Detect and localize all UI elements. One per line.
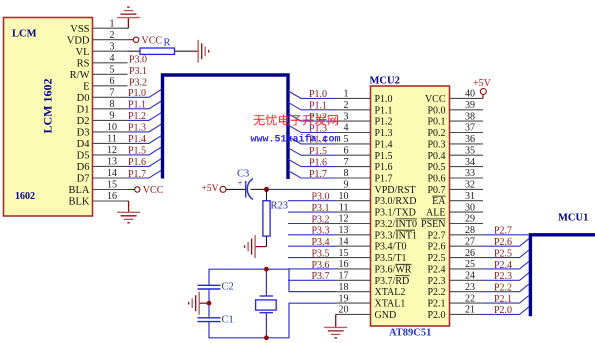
overlines on EA PSEN (421, 196, 446, 219)
svg-text:P2.4: P2.4 (494, 260, 512, 271)
svg-text:P1.5: P1.5 (128, 146, 146, 157)
svg-text:P0.2: P0.2 (427, 128, 445, 139)
svg-text:14: 14 (339, 236, 349, 247)
svg-text:2: 2 (110, 30, 115, 41)
svg-text:VCC: VCC (143, 185, 164, 196)
svg-text:P1.2: P1.2 (375, 117, 393, 128)
svg-text:4: 4 (344, 123, 349, 134)
svg-text:D6: D6 (77, 162, 90, 173)
power VCC at LCM pin15 (128, 189, 135, 191)
svg-text:P2.0: P2.0 (494, 305, 512, 316)
svg-text:XTAL2: XTAL2 (375, 287, 406, 298)
svg-text:37: 37 (465, 123, 475, 134)
wires D0-D7 to bus, net labels P1.0-P1.7 (128, 89, 163, 178)
svg-text:6: 6 (344, 145, 349, 156)
crystal Y1 (260, 295, 274, 297)
svg-text:EA: EA (432, 196, 446, 207)
MCU2 right pin numbers (465, 89, 475, 316)
svg-text:LCM: LCM (12, 29, 37, 40)
svg-text:21: 21 (465, 305, 475, 316)
svg-text:P3.1: P3.1 (312, 203, 330, 214)
MCU2 left pin stubs (336, 98, 371, 314)
svg-text:11: 11 (339, 202, 349, 213)
svg-text:14: 14 (107, 168, 117, 179)
svg-text:P2.1: P2.1 (427, 299, 445, 310)
svg-text:33: 33 (465, 168, 475, 179)
svg-text:31: 31 (465, 191, 475, 202)
wire R23 to ground (266, 236, 268, 247)
svg-text:P3.5/T1: P3.5/T1 (375, 253, 407, 264)
ground (GND at MCU pin20) (324, 327, 347, 338)
svg-text:P1.0: P1.0 (375, 94, 393, 105)
MCU2 AT89C51 block (371, 86, 450, 326)
capacitor C1 (198, 317, 221, 319)
svg-text:R: R (164, 38, 171, 49)
svg-text:30: 30 (465, 202, 475, 213)
svg-text:15: 15 (339, 248, 349, 259)
MCU2 right pin names (421, 94, 446, 321)
LCM1602 block U-LCM (4, 18, 93, 217)
bus D0-D7 / P1 (thick) (163, 75, 289, 179)
svg-text:VCC: VCC (142, 35, 163, 46)
svg-text:RS: RS (77, 58, 90, 69)
svg-text:P1.1: P1.1 (309, 101, 327, 112)
svg-text:P1.7: P1.7 (309, 169, 327, 180)
svg-text:12: 12 (339, 214, 349, 225)
svg-text:P2.2: P2.2 (494, 283, 512, 294)
svg-text:P3.3: P3.3 (312, 226, 330, 237)
svg-text:ALE: ALE (426, 208, 445, 219)
svg-text:P1.2: P1.2 (128, 111, 146, 122)
svg-text:P2.5: P2.5 (494, 248, 512, 259)
svg-text:26: 26 (465, 248, 475, 259)
svg-text:6: 6 (110, 76, 115, 87)
svg-text:XTAL1: XTAL1 (375, 299, 406, 310)
svg-text:P3.3/INT1: P3.3/INT1 (375, 230, 418, 241)
net labels P3.0 P3.1 P3.2 at LCM (129, 54, 147, 88)
svg-text:P3.7/RD: P3.7/RD (375, 276, 410, 287)
svg-text:28: 28 (465, 225, 475, 236)
svg-text:P0.4: P0.4 (427, 151, 445, 162)
svg-text:VSS: VSS (70, 24, 89, 35)
svg-text:P2.1: P2.1 (494, 294, 512, 305)
svg-text:18: 18 (339, 282, 349, 293)
svg-text:P2.0: P2.0 (427, 310, 445, 321)
svg-text:D7: D7 (77, 174, 90, 185)
capacitor C2 (198, 284, 221, 286)
svg-text:LCM 1602: LCM 1602 (41, 79, 55, 134)
wire VPD/RST (pin9) to C3/R23 node (267, 188, 336, 190)
wire pin16 to GND (128, 200, 129, 202)
svg-text:P0.5: P0.5 (427, 162, 445, 173)
svg-text:17: 17 (339, 271, 349, 282)
MCU2 left pin names (375, 94, 418, 321)
svg-text:www.51kaifa.com: www.51kaifa.com (251, 134, 341, 146)
svg-text:BLK: BLK (69, 197, 90, 208)
wire pin1 to GND (127, 27, 130, 29)
resistor R (128, 50, 141, 52)
svg-text:BLA: BLA (69, 185, 90, 196)
svg-text:P2.3: P2.3 (494, 271, 512, 282)
svg-text:P1.1: P1.1 (128, 100, 146, 111)
svg-text:D4: D4 (77, 139, 91, 150)
svg-text:P0.7: P0.7 (427, 185, 445, 196)
svg-text:24: 24 (465, 271, 475, 282)
watermark (251, 114, 341, 145)
junction node C3/R23/RST (264, 187, 269, 192)
svg-text:C2: C2 (222, 282, 234, 293)
svg-text:35: 35 (465, 145, 475, 156)
svg-text:13: 13 (339, 225, 349, 236)
svg-text:AT89C51: AT89C51 (389, 328, 431, 339)
ground (GND at C1/C2) (189, 292, 200, 315)
svg-text:+: + (238, 178, 243, 188)
ground (GND at LCM pin16) (117, 212, 140, 223)
svg-text:9: 9 (344, 180, 349, 191)
node crystal bottom (264, 335, 269, 340)
svg-text:7: 7 (110, 88, 115, 99)
svg-text:3: 3 (344, 111, 349, 122)
svg-text:P1.0: P1.0 (309, 89, 327, 100)
svg-text:P3.4: P3.4 (312, 237, 330, 248)
svg-text:8: 8 (344, 168, 349, 179)
svg-text:P3.6: P3.6 (312, 260, 330, 271)
svg-text:39: 39 (465, 100, 475, 111)
wire MCU pin20 to GND (335, 314, 337, 327)
svg-text:P3.6/WR: P3.6/WR (375, 264, 412, 275)
LCM pin stubs 1-16 (93, 28, 128, 201)
svg-text:P3.1: P3.1 (129, 66, 147, 77)
svg-text:27: 27 (465, 236, 475, 247)
svg-text:P0.0: P0.0 (427, 105, 445, 116)
svg-text:P1.6: P1.6 (128, 157, 146, 168)
ground (GND right of R) (198, 40, 209, 63)
LCM pin names (67, 24, 90, 208)
svg-text:34: 34 (465, 157, 475, 168)
svg-text:GND: GND (375, 310, 397, 321)
wires P3.0-P3.7 net labels at MCU2 (288, 201, 336, 281)
svg-text:2: 2 (344, 100, 349, 111)
svg-text:VDD: VDD (67, 35, 90, 46)
svg-text:P2.2: P2.2 (427, 287, 445, 298)
svg-text:P1.3: P1.3 (375, 128, 393, 139)
svg-text:D3: D3 (77, 128, 90, 139)
svg-text:10: 10 (107, 122, 117, 133)
svg-text:P3.4/T0: P3.4/T0 (375, 242, 407, 253)
svg-text:P3.0: P3.0 (129, 54, 147, 65)
MCU2 left pin numbers (339, 89, 349, 316)
svg-text:P1.6: P1.6 (309, 157, 327, 168)
svg-text:R/W: R/W (70, 70, 90, 81)
svg-text:5: 5 (344, 134, 349, 145)
svg-text:P3.2: P3.2 (129, 77, 147, 88)
svg-text:11: 11 (107, 134, 117, 145)
svg-text:7: 7 (344, 157, 349, 168)
svg-text:MCU2: MCU2 (370, 76, 400, 87)
svg-text:P1.4: P1.4 (128, 134, 146, 145)
svg-text:P2.3: P2.3 (427, 276, 445, 287)
svg-text:40: 40 (465, 89, 475, 100)
svg-text:D0: D0 (77, 93, 90, 104)
svg-text:4: 4 (110, 53, 115, 64)
node crystal top (264, 267, 269, 272)
svg-text:12: 12 (107, 145, 117, 156)
svg-text:C1: C1 (222, 315, 234, 326)
svg-text:1602: 1602 (15, 191, 35, 202)
ground (GND below R23) (245, 235, 256, 258)
svg-text:D5: D5 (77, 151, 90, 162)
bus P2 to MCU1 (thick) (530, 235, 595, 316)
svg-text:VCC: VCC (425, 94, 446, 105)
svg-text:22: 22 (465, 293, 475, 304)
svg-text:1: 1 (110, 18, 115, 29)
svg-text:29: 29 (465, 214, 475, 225)
LCM pin numbers (107, 18, 117, 202)
svg-text:P3.0/RXD: P3.0/RXD (375, 196, 417, 207)
svg-text:P3.2/INT0: P3.2/INT0 (375, 219, 418, 230)
svg-text:13: 13 (107, 157, 117, 168)
svg-text:R23: R23 (271, 201, 289, 212)
wire R to ground (175, 50, 194, 52)
wires P2.7-P2.0 to bus (483, 235, 529, 315)
svg-text:P1.3: P1.3 (128, 123, 146, 134)
MCU2 right pin stubs (450, 98, 484, 314)
svg-text:P3.5: P3.5 (312, 248, 330, 259)
node C1/C2 junction (207, 301, 212, 306)
svg-text:19: 19 (339, 293, 349, 304)
svg-text:P1.1: P1.1 (375, 105, 393, 116)
svg-text:P3.1/TXD: P3.1/TXD (375, 208, 416, 219)
svg-text:MCU1: MCU1 (558, 213, 588, 224)
svg-text:+5V: +5V (202, 184, 219, 194)
svg-text:P1.4: P1.4 (375, 139, 393, 150)
svg-text:P1.5: P1.5 (309, 146, 327, 157)
svg-text:P1.6: P1.6 (375, 162, 393, 173)
svg-text:VPD/RST: VPD/RST (375, 185, 416, 196)
svg-text:9: 9 (110, 111, 115, 122)
svg-text:5: 5 (110, 65, 115, 76)
svg-text:P1.0: P1.0 (128, 88, 146, 99)
svg-text:P0.6: P0.6 (427, 174, 445, 185)
svg-text:P1.7: P1.7 (128, 169, 146, 180)
svg-text:D1: D1 (77, 104, 90, 115)
svg-text:25: 25 (465, 259, 475, 270)
svg-text:P2.6: P2.6 (427, 242, 445, 253)
svg-text:P3.7: P3.7 (312, 271, 330, 282)
svg-text:32: 32 (465, 180, 475, 191)
svg-text:P3.0: P3.0 (312, 192, 330, 203)
overlines on INT0 INT1 WR RD (395, 219, 417, 276)
svg-text:P2.7: P2.7 (494, 226, 512, 237)
svg-text:P2.7: P2.7 (427, 230, 445, 241)
svg-text:P2.4: P2.4 (427, 264, 445, 275)
power VCC at LCM pin2 (128, 39, 134, 41)
svg-text:16: 16 (107, 191, 117, 202)
svg-text:E: E (83, 81, 89, 92)
svg-text:P0.3: P0.3 (427, 139, 445, 150)
power +5V at MCU pin40 (482, 94, 484, 98)
svg-text:3: 3 (110, 41, 115, 52)
svg-text:P2.6: P2.6 (494, 237, 512, 248)
svg-text:P3.2: P3.2 (312, 214, 330, 225)
svg-text:20: 20 (339, 305, 349, 316)
svg-text:P1.7: P1.7 (375, 174, 393, 185)
svg-text:36: 36 (465, 134, 475, 145)
svg-text:23: 23 (465, 282, 475, 293)
svg-text:38: 38 (465, 111, 475, 122)
svg-text:15: 15 (107, 180, 117, 191)
svg-text:VL: VL (76, 47, 90, 58)
svg-text:16: 16 (339, 259, 349, 270)
crystal circuit wires (209, 269, 336, 338)
svg-text:P1.5: P1.5 (375, 151, 393, 162)
svg-text:P0.1: P0.1 (427, 117, 445, 128)
svg-text:10: 10 (339, 191, 349, 202)
wires bus to MCU2 P1.0-P1.7 (288, 91, 336, 178)
svg-text:8: 8 (110, 99, 115, 110)
svg-text:1: 1 (344, 89, 349, 100)
svg-text:P2.5: P2.5 (427, 253, 445, 264)
svg-text:PSEN: PSEN (421, 219, 445, 230)
ground (GND at LCM pin1) (117, 7, 140, 18)
resistor R23 (266, 189, 268, 200)
svg-text:+5V: +5V (473, 78, 492, 89)
svg-text:D2: D2 (77, 116, 90, 127)
